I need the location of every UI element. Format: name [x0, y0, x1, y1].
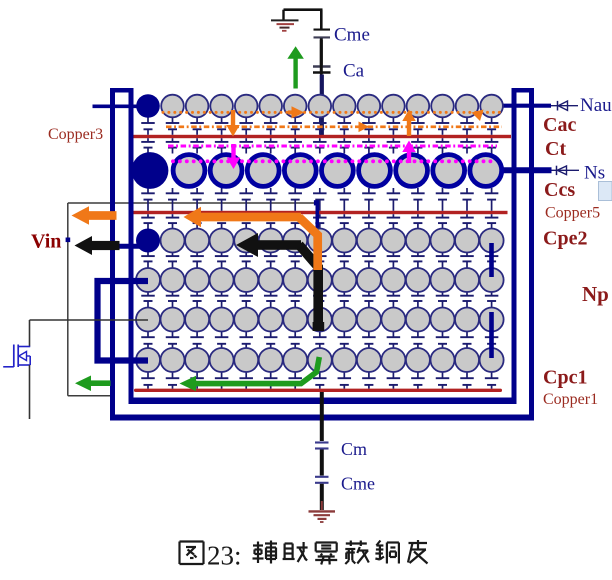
label Nau — [580, 95, 612, 116]
wire ground to Ca chain top — [284, 10, 323, 29]
svg-text:Cac: Cac — [543, 114, 576, 136]
label Ccs — [544, 179, 575, 201]
capacitors row3 to row4 — [141, 252, 498, 270]
wire row5 from MOSFET drain — [30, 319, 149, 321]
arrow green small left — [75, 375, 111, 391]
svg-text:Ct: Ct — [545, 138, 566, 160]
core tub left outer wall — [110, 88, 115, 421]
capacitor Cme bottom — [315, 477, 329, 483]
ground top — [271, 10, 299, 31]
wire Cm to Cme — [320, 450, 324, 476]
artifact selection box — [599, 182, 612, 201]
dash-dot line Cac (orange) — [166, 125, 502, 128]
capacitors row6 to Copper1 (Cpc1) — [141, 371, 498, 389]
arrow black long left (primary current) — [236, 233, 324, 331]
arrow magenta down (Ct region) — [227, 144, 241, 169]
copper shield Copper3 line — [134, 135, 512, 138]
capacitors Copper5 to row3 (Cpe2) — [141, 214, 498, 229]
caption char 辅 — [253, 541, 278, 564]
wire right link row3-row4 — [489, 243, 494, 277]
core tub right wall top cap — [512, 88, 535, 93]
label Ca — [343, 61, 365, 82]
copper shield Copper1 line — [134, 389, 502, 392]
capacitors row5 to row6 — [141, 331, 498, 350]
svg-text:23:: 23: — [207, 541, 242, 571]
wire row3 stub from wall — [111, 244, 150, 249]
core tub left inner wall — [129, 88, 134, 404]
wire Vin loop box top edge — [68, 202, 317, 204]
copper shield Copper5 line — [134, 211, 508, 214]
winding row1 start turn (solid) — [136, 94, 160, 118]
winding row2 secondary turns (Ns) — [173, 155, 502, 187]
capacitor Ca — [313, 67, 331, 73]
capacitors row4 to row5 — [141, 291, 498, 309]
caption char 铜 — [375, 541, 399, 564]
svg-text:Cpc1: Cpc1 — [543, 367, 587, 389]
caption char 图 — [180, 542, 204, 565]
transistor Q1 MOSFET — [3, 320, 30, 419]
svg-text:Cpe2: Cpe2 — [543, 228, 587, 250]
svg-text:Copper3: Copper3 — [48, 126, 103, 143]
label Cpc1 — [543, 367, 587, 389]
winding row4 primary turns (Np) — [136, 268, 504, 292]
svg-text:Copper5: Copper5 — [545, 204, 600, 221]
diode Ns — [557, 166, 567, 175]
wire row2 to Ns — [495, 167, 579, 173]
caption text 23: — [207, 541, 242, 571]
capacitors Copper3 to row2 (Cac Ct region) — [141, 138, 498, 153]
capacitor Cm — [315, 443, 329, 449]
svg-text:Cm: Cm — [341, 439, 367, 459]
wire Ca down into winding — [320, 40, 323, 137]
core tub outer bottom — [110, 415, 534, 421]
svg-text:Cme: Cme — [341, 474, 375, 494]
node Vin dot — [66, 238, 71, 243]
arrow orange right on dotted — [288, 106, 304, 118]
winding row3 primary turns (Np) — [161, 229, 504, 253]
label Cme bottom — [341, 474, 375, 494]
dotted line Cac coupling (orange, row1) — [162, 111, 501, 114]
wire row1 left stub — [93, 105, 149, 109]
label Vin — [31, 231, 61, 253]
label Copper5 — [545, 204, 600, 221]
arrow orange NE near Nau — [472, 110, 484, 122]
diode Nau — [558, 101, 568, 111]
core tub right inner wall — [512, 88, 517, 404]
arrow orange small left (to Vin) — [72, 206, 117, 225]
label Copper1 — [543, 391, 598, 408]
arrow green long left (shield current) — [180, 357, 320, 391]
winding row6 primary turns (Np) — [136, 348, 504, 372]
wire junction node A — [314, 200, 319, 234]
caption char 助 — [283, 542, 308, 562]
wire row1 to Nau — [495, 104, 578, 108]
dotted line Ct (magenta, row2) — [171, 159, 492, 163]
wire Vin loop box bottom edge — [68, 395, 111, 397]
arrow orange down (Cac region) — [226, 110, 240, 137]
wire Copper1 down to Cm — [320, 330, 324, 441]
wire Cme to ground — [320, 484, 324, 510]
wire primary U-link row4-row6 — [98, 281, 149, 361]
svg-text:Ca: Ca — [343, 61, 365, 82]
label Copper3 — [48, 126, 103, 143]
capacitors winding row1 to Copper3 — [141, 116, 498, 135]
caption char 屏 — [315, 543, 337, 565]
label Cm — [341, 439, 367, 459]
label Cme top — [334, 25, 370, 46]
arrow orange long left (secondary current) — [184, 207, 318, 270]
svg-text:Ns: Ns — [584, 163, 605, 184]
ground bottom — [309, 501, 336, 522]
arrow black small left (Vin) — [75, 236, 120, 255]
dash-dot line Ct coupling (magenta) — [168, 145, 497, 148]
svg-text:Vin: Vin — [31, 231, 61, 253]
label Cpe2 — [543, 228, 587, 250]
core tub left wall top cap — [110, 88, 134, 93]
label Ns — [584, 163, 605, 184]
core tub inner bottom — [129, 398, 517, 405]
core tub right outer wall — [529, 88, 534, 421]
caption char 蔽 — [345, 541, 369, 565]
arrow orange up (Cac region) — [402, 110, 416, 137]
wire Cme to Ca — [320, 38, 323, 65]
svg-text:Ccs: Ccs — [544, 179, 575, 201]
label Ct — [545, 138, 566, 160]
arrow orange right on dash-dot — [359, 122, 370, 133]
svg-text:Copper1: Copper1 — [543, 391, 598, 408]
label Cac — [543, 114, 576, 136]
capacitors row2 to Copper5 (Ccs) — [141, 188, 498, 211]
winding row1 auxiliary turns (Nau) — [161, 95, 503, 118]
capacitor Cme top — [314, 30, 331, 38]
caption char 皮 — [408, 540, 428, 564]
svg-text:Np: Np — [582, 282, 609, 306]
wire Vin loop box left edge — [67, 203, 69, 396]
svg-text:Nau: Nau — [580, 95, 612, 116]
label Np — [582, 282, 609, 306]
arrow magenta up (Ct region) — [402, 141, 416, 164]
winding row2 start turn (solid) — [132, 152, 169, 189]
wire right link row5-row6 — [489, 312, 494, 358]
svg-text:Cme: Cme — [334, 25, 370, 46]
winding row3 start turn (solid) — [136, 229, 160, 253]
arrow green up (to Cme/Ca) — [287, 46, 304, 88]
winding row5 primary turns (Np) — [136, 308, 504, 332]
